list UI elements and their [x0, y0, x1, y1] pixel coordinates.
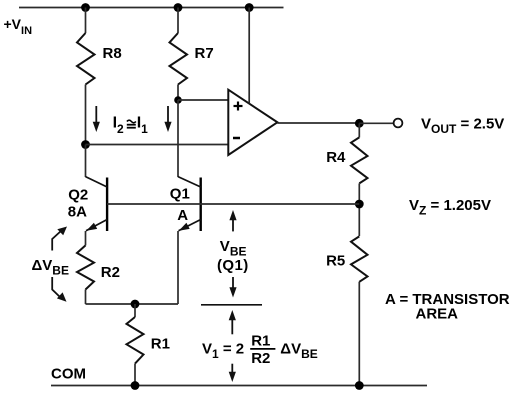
label Q1 [170, 186, 190, 203]
wire R8 bottom to minus node [85, 85, 87, 145]
node junction VZ [355, 200, 364, 209]
svg-text:(Q1): (Q1) [217, 257, 249, 274]
wire minus input [86, 144, 229, 146]
node junction rail-R8 [81, 3, 90, 12]
current arrow I1 [164, 106, 171, 132]
svg-text:R2: R2 [101, 264, 120, 281]
svg-text:R1: R1 [251, 332, 270, 349]
wire R4 bottom to VZ node [358, 183, 360, 236]
node junction output-R4 [355, 119, 364, 128]
svg-text:R7: R7 [195, 45, 214, 62]
node junction rail-R1 [131, 381, 140, 390]
label I2 approx I1 [113, 115, 149, 137]
wire R1 bottom lead [134, 364, 136, 386]
annotation arrow dVBE top [52, 227, 67, 251]
svg-text:COM: COM [51, 366, 86, 383]
tick emitter potential [201, 304, 262, 306]
resistor R8 [77, 33, 95, 85]
node junction R8-opamp minus input [81, 140, 90, 149]
label VOUT = 2.5V [421, 115, 504, 136]
node junction rail-opamp supply [245, 3, 254, 12]
wire Q1 emitter lead [177, 231, 179, 304]
wire opamp output [277, 122, 359, 124]
label 8A [68, 203, 87, 220]
label R1 [151, 336, 170, 353]
label R5 [326, 253, 345, 270]
svg-text:R4: R4 [326, 149, 346, 166]
wire R5 bottom lead [358, 282, 360, 386]
annotation arrow dVBE bottom [52, 277, 66, 302]
wire R7-Q1 collector lead [177, 100, 179, 177]
label R2 [101, 264, 120, 281]
node junction emitters-R1 [131, 300, 140, 309]
svg-text:R8: R8 [103, 45, 122, 62]
wire Q2 collector lead [85, 145, 87, 178]
wire Q2 emitter lead [85, 231, 87, 245]
wire R7 top lead [177, 8, 179, 34]
resistor R7 [170, 33, 188, 85]
wire to output terminal [359, 122, 394, 124]
node junction rail-R7 [174, 3, 183, 12]
label (Q1) [217, 257, 249, 274]
label COM [51, 366, 86, 383]
label R8 [103, 45, 122, 62]
label V1 formula [202, 332, 318, 367]
label R4 [326, 149, 346, 166]
svg-text:8A: 8A [68, 203, 87, 220]
measure arrow V1 down [229, 364, 236, 382]
wire bottom COM rail [51, 385, 427, 387]
wire top +VIN rail [19, 7, 284, 9]
label delta VBE [32, 257, 69, 278]
measure arrow V1 up [229, 310, 236, 334]
node junction R7-opamp plus input [174, 96, 182, 104]
label A = TRANSISTOR AREA [385, 291, 510, 322]
wire emitter bus [86, 303, 179, 305]
label R7 [195, 45, 214, 62]
wire base bus Q2-Q1-VZ [107, 203, 359, 205]
wire opamp supply from rail [248, 8, 250, 104]
label VBE [220, 238, 247, 259]
resistor R4 [351, 137, 368, 183]
svg-text:R2: R2 [251, 350, 270, 367]
current arrow I2 [93, 106, 100, 132]
svg-text:R1: R1 [151, 336, 170, 353]
label +VIN [4, 16, 33, 37]
svg-text:A: A [177, 207, 188, 224]
wire R4 top lead [358, 123, 360, 137]
wire R8 top lead [85, 8, 87, 34]
wire R7 bottom to plus node [177, 85, 179, 101]
resistor R1 [127, 317, 144, 364]
transistor Q1 [178, 177, 201, 231]
resistor R2 [77, 245, 94, 289]
measure arrow VBE up [229, 210, 236, 231]
svg-text:Q2: Q2 [68, 187, 88, 204]
op-amp U1 [228, 90, 277, 155]
terminal VOUT open circle [394, 119, 403, 128]
resistor R5 [351, 236, 368, 281]
wire R2 bottom lead [85, 290, 87, 305]
label VZ = 1.205V [409, 197, 491, 218]
wire R1 top lead [134, 304, 136, 317]
measure arrow VBE down [229, 277, 236, 298]
svg-text:R5: R5 [326, 253, 345, 270]
label A [177, 207, 188, 224]
label Q2 [68, 187, 88, 204]
node junction rail-R5 [355, 381, 364, 390]
wire plus input [178, 99, 228, 101]
svg-text:AREA: AREA [416, 305, 459, 322]
transistor Q2 [86, 177, 108, 231]
svg-text:Q1: Q1 [170, 186, 190, 203]
